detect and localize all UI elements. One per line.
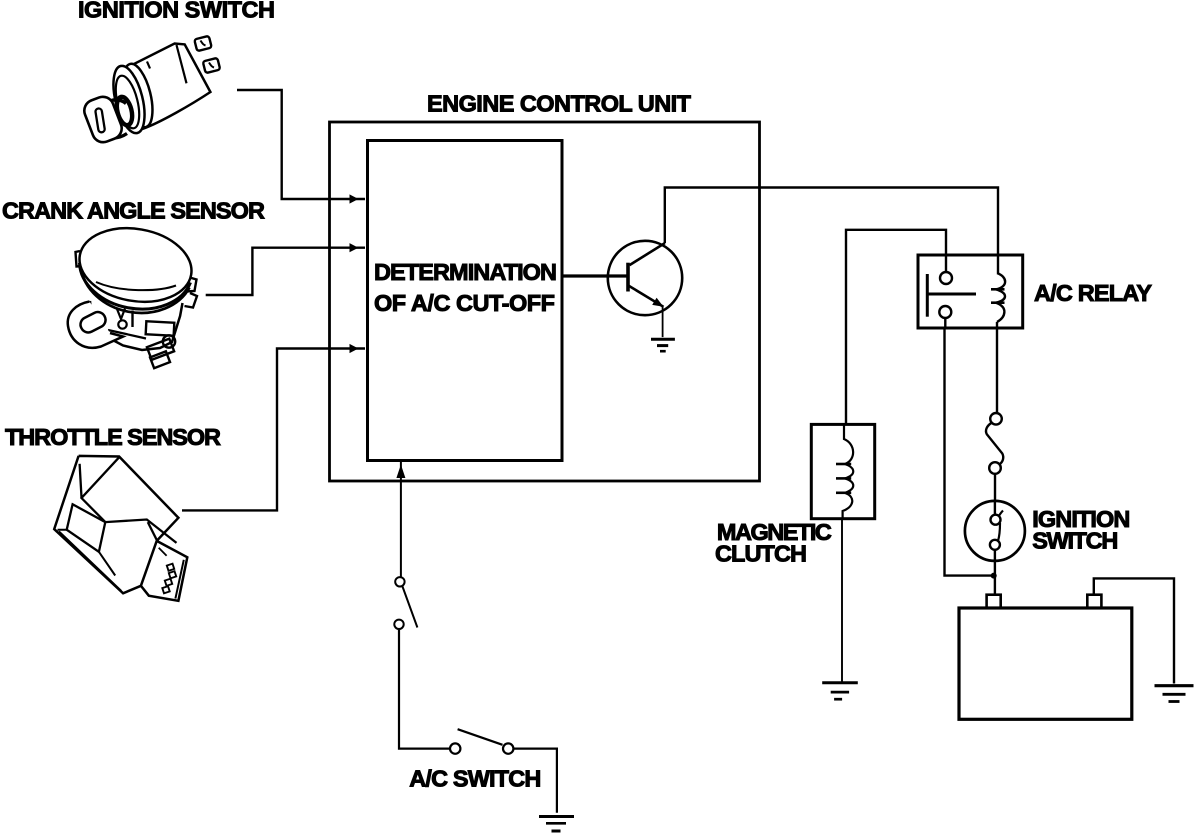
recessed panel (67, 504, 106, 552)
fuse top circle (990, 413, 1002, 425)
transistor base lead (562, 274, 627, 277)
svg-text:IGNITION SWITCH: IGNITION SWITCH (78, 0, 275, 23)
svg-text:OF A/C CUT-OFF: OF A/C CUT-OFF (374, 290, 555, 316)
relay top terminal (940, 272, 952, 284)
cap right screw detail (185, 293, 198, 308)
collar rear rim (118, 61, 158, 130)
connector pin 1 (167, 564, 174, 571)
A/C switch bottom left contact (450, 743, 460, 753)
connector pin 2 (169, 571, 176, 578)
battery terminal 2 (1087, 595, 1101, 608)
bottom edge inner line (59, 531, 121, 591)
wire ECU inner box down to A/C switch (400, 461, 402, 577)
A/C switch upper blade (402, 586, 417, 628)
ignition switch pictorial (key cylinder) (81, 36, 220, 146)
relay bottom terminal (939, 306, 951, 318)
ignition switch inner hook (998, 511, 1003, 542)
key boss ring (114, 95, 135, 127)
terminal tab 2 (203, 58, 220, 73)
wire from crank angle sensor to ECU (206, 248, 365, 295)
wire from ignition switch to ECU (237, 90, 365, 199)
arrow into ECU (ignition input) (350, 194, 359, 203)
wire from A/C switch to ground (513, 749, 557, 813)
flange slot (78, 309, 108, 335)
transistor collector diagonal (630, 243, 666, 265)
tab 1 slot (201, 41, 206, 46)
relay coil tick 1 (991, 288, 1005, 291)
svg-text:A/C RELAY: A/C RELAY (1034, 280, 1152, 306)
wire fuse to ignition switch circle (994, 474, 996, 501)
ignition switch inner bottom contact (990, 540, 1000, 550)
svg-text:A/C SWITCH: A/C SWITCH (409, 765, 541, 791)
body outline (90, 301, 183, 350)
body window (146, 321, 175, 335)
connector hatch (159, 548, 167, 556)
junction node dot (991, 573, 997, 579)
ground below transistor (651, 339, 675, 351)
tab 2 slot (209, 63, 214, 68)
battery terminal 1 (987, 595, 1001, 608)
key head (81, 94, 125, 146)
flange bracket (68, 302, 123, 348)
wire relay contact to magnetic clutch (846, 230, 946, 425)
cap right clamp (186, 277, 197, 292)
transistor emitter diagonal (628, 286, 663, 307)
relay contact post bar (926, 274, 929, 317)
ground below A/C switch (539, 817, 574, 832)
panel chamfers (58, 530, 116, 576)
wire battery terminal 2 to ground (1094, 578, 1174, 683)
connector inner line (175, 560, 183, 599)
body silhouette (54, 456, 178, 593)
wire ignition circle top stub (994, 501, 996, 515)
body screw circle (118, 320, 126, 328)
bottom right shaft block (147, 339, 174, 360)
rear band line (177, 45, 187, 83)
transistor collector wire up and right to relay (665, 188, 998, 274)
magnetic clutch coil (843, 424, 854, 518)
top band interior lines (80, 457, 177, 543)
transistor base bar (626, 263, 630, 292)
A/C relay box (918, 255, 1023, 328)
bottom right shaft block 2 (150, 351, 170, 368)
relay coil tick 2 (991, 301, 1005, 304)
collar inner face ring (111, 73, 143, 130)
svg-text:CRANK ANGLE SENSOR: CRANK ANGLE SENSOR (2, 198, 265, 224)
A/C switch bottom blade (458, 729, 503, 745)
clutch coil tick 3 (836, 491, 851, 494)
relay coil (996, 273, 1005, 322)
wire from upper switch to lower switch (399, 629, 450, 749)
wire magnetic clutch to ground (841, 519, 843, 682)
body lower band (108, 330, 146, 339)
transistor emitter wire down to ground (662, 307, 664, 337)
svg-text:DETERMINATION: DETERMINATION (374, 259, 557, 285)
connector pin 3 (165, 579, 172, 586)
wire relay coil bottom to fuse (996, 322, 998, 413)
fuse bottom circle (989, 462, 1001, 474)
ground below magnetic clutch (822, 683, 858, 699)
bottom right shaft circle (163, 335, 175, 347)
svg-text:THROTTLE SENSOR: THROTTLE SENSOR (5, 424, 221, 450)
arrow up into ECU inner box (396, 465, 405, 479)
ground at battery right (1155, 686, 1194, 702)
cap ellipse (74, 220, 198, 311)
wire relay contact bottom to battery junction (945, 318, 992, 576)
cap rim band (80, 263, 191, 309)
battery box (959, 608, 1132, 719)
A/C switch upper contact circle (395, 577, 404, 586)
body rib 2 (131, 311, 133, 328)
A/C switch lower contact circle (394, 620, 403, 629)
A/C switch bottom right contact (503, 743, 513, 753)
clutch coil tick 2 (836, 477, 851, 480)
collar front ellipse (108, 63, 151, 136)
wire ignition circle bottom to battery (994, 550, 996, 595)
terminal tab 1 (194, 36, 211, 51)
svg-text:ENGINE CONTROL UNIT: ENGINE CONTROL UNIT (427, 90, 692, 116)
body tick (147, 62, 150, 69)
connector pin 4 (162, 586, 169, 593)
arrow into ECU (throttle input) (350, 344, 359, 353)
ignition switch (right) circle (965, 501, 1025, 561)
svg-text:SWITCH: SWITCH (1032, 528, 1118, 554)
connector outline (141, 541, 187, 601)
cylinder body (126, 44, 210, 130)
crank angle sensor pictorial (distributor) (68, 220, 198, 368)
cap rim band 2 (81, 268, 190, 313)
wire from throttle sensor to ECU (182, 349, 365, 511)
fuse S-curve (986, 423, 1003, 465)
ECU outer box (330, 122, 760, 481)
svg-text:CLUTCH: CLUTCH (715, 541, 807, 567)
throttle sensor pictorial (54, 456, 187, 601)
clutch coil tick 1 (836, 463, 851, 466)
key shaft bridge (108, 100, 128, 138)
ECU inner box DETERMINATION OF A/C CUT-OFF (368, 141, 563, 461)
cap left tab (76, 251, 85, 267)
transistor emitter arrow (652, 298, 663, 307)
magnetic clutch box (811, 424, 874, 518)
arrow into ECU (crank input) (350, 243, 359, 252)
relay contact arm (927, 293, 976, 296)
keyhole slot (95, 108, 105, 133)
ignition switch inner top contact (991, 515, 1001, 525)
transistor Q1 circle (608, 241, 682, 315)
body rib 1 (117, 309, 125, 320)
cap dome line (96, 282, 176, 290)
